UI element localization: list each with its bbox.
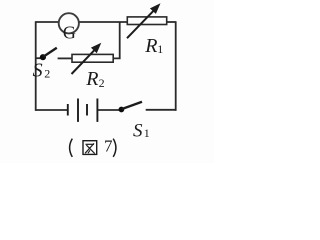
- switch S2 blade: [44, 48, 57, 57]
- battery cell 2 long plate: [96, 99, 98, 122]
- svg-text:2: 2: [44, 67, 50, 81]
- wire battery to S1: [97, 109, 121, 111]
- wire bottom-right segment: [146, 109, 176, 111]
- svg-text:2: 2: [99, 76, 105, 90]
- resistor R2 (variable, box): [72, 54, 113, 62]
- svg-text:1: 1: [144, 126, 150, 140]
- wire right edge: [175, 21, 177, 111]
- battery cell 1 long plate: [77, 99, 79, 122]
- battery cell 2 short plate: [86, 104, 88, 116]
- resistor R2 arrow: [72, 44, 101, 74]
- switch S1 blade: [122, 102, 142, 109]
- resistor R1 (variable, box): [127, 17, 166, 25]
- wire left edge: [35, 21, 37, 111]
- svg-text:G: G: [63, 22, 76, 42]
- galvanometer G meter circle: [59, 13, 79, 33]
- battery cell 1 short plate: [67, 104, 69, 116]
- wire top-middle segment: [79, 21, 127, 23]
- switch S2 pivot dot: [40, 54, 46, 60]
- svg-text:1: 1: [157, 42, 163, 56]
- caption open paren: [70, 139, 73, 157]
- wire S2 to R2: [58, 57, 72, 59]
- resistor R1 arrow: [127, 4, 160, 38]
- wire S2 branch left stub: [36, 57, 41, 59]
- wire top-right segment: [167, 21, 176, 23]
- wire bottom-left segment: [36, 109, 67, 111]
- node junction drop wire (top wire to R2 branch): [113, 22, 120, 58]
- svg-text:7: 7: [104, 137, 113, 156]
- svg-text:R: R: [85, 68, 98, 90]
- svg-text:S: S: [33, 60, 43, 82]
- wire top-left segment: [36, 21, 59, 23]
- svg-text:R: R: [144, 35, 157, 57]
- switch S1 pivot dot: [119, 107, 125, 113]
- caption character TU (figure) box: [83, 141, 97, 155]
- svg-text:S: S: [133, 120, 143, 141]
- caption close paren: [113, 139, 116, 157]
